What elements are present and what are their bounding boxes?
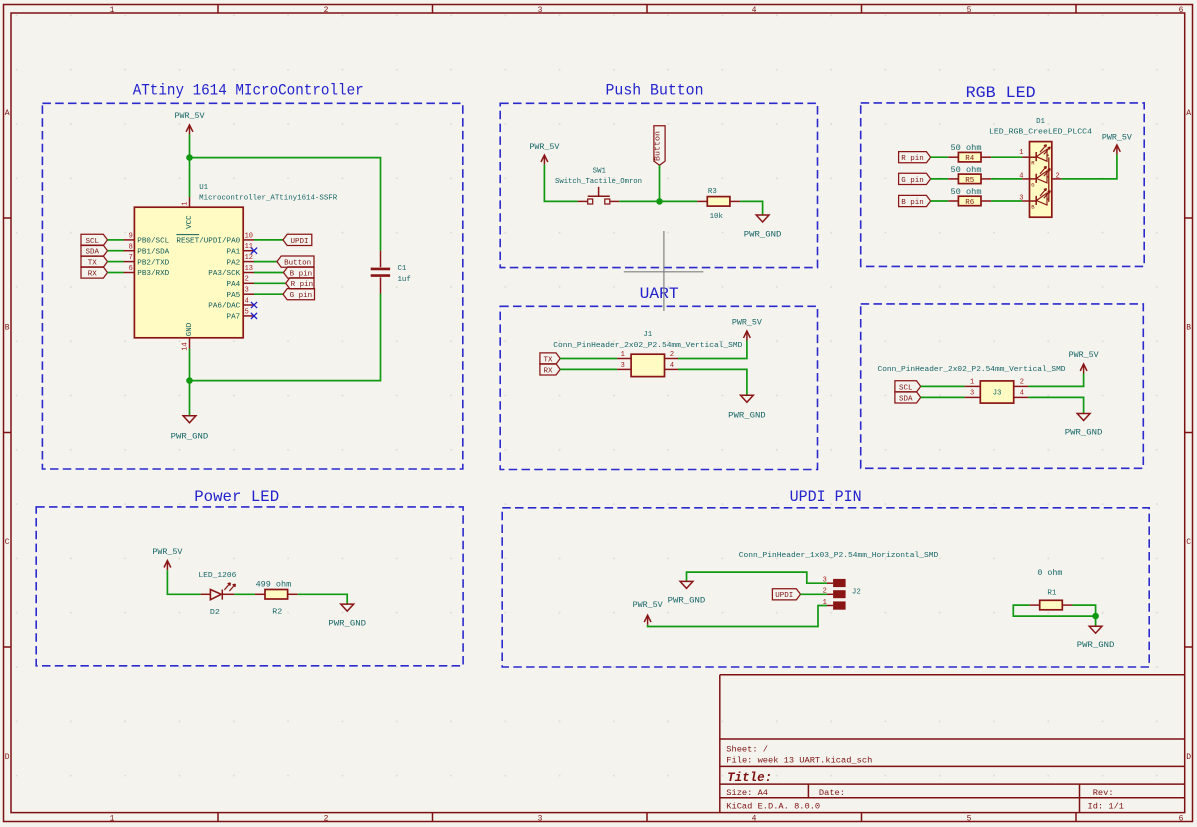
wire (991, 200, 1022, 202)
svg-text:KiCad E.D.A. 8.0.0: KiCad E.D.A. 8.0.0 (726, 801, 820, 811)
pin 2 (PA4) (243, 282, 254, 284)
wire (234, 593, 255, 595)
wire (1013, 605, 1095, 616)
svg-text:PWR_GND: PWR_GND (171, 432, 209, 442)
wire (931, 156, 949, 158)
wire (678, 341, 747, 359)
global label RX (81, 267, 108, 279)
svg-text:R2: R2 (272, 609, 282, 617)
svg-text:PWR_GND: PWR_GND (1077, 640, 1115, 650)
resistor R1 (1030, 600, 1073, 610)
border tick (4, 646, 12, 648)
wire (108, 239, 124, 241)
svg-text:Date:: Date: (819, 788, 845, 798)
wire (991, 156, 1022, 158)
svg-text:Button: Button (655, 131, 663, 161)
svg-text:3: 3 (245, 287, 249, 295)
svg-text:3: 3 (538, 814, 543, 823)
svg-text:2: 2 (324, 814, 329, 823)
svg-text:RX: RX (88, 270, 98, 278)
section box: power led (36, 507, 463, 666)
global label TX (540, 353, 560, 365)
svg-text:1: 1 (970, 378, 974, 386)
svg-text:G pin: G pin (901, 177, 924, 185)
svg-text:5: 5 (967, 6, 972, 15)
section box: updi pin (502, 508, 1149, 667)
wire (687, 572, 828, 583)
power PWR_5V symbol (1114, 145, 1121, 155)
svg-text:SW1: SW1 (593, 167, 607, 175)
svg-text:PB0/SCL: PB0/SCL (137, 238, 169, 246)
border tick (1185, 646, 1193, 648)
svg-text:3: 3 (621, 362, 625, 370)
svg-text:1: 1 (110, 814, 115, 823)
LED D2 (201, 583, 236, 600)
wire (1028, 397, 1083, 413)
svg-text:R6: R6 (965, 199, 975, 207)
wire (648, 606, 827, 627)
pin 12 (PA2) (243, 261, 254, 263)
border tick (217, 813, 219, 822)
ground PWR_GND symbol (1089, 626, 1102, 633)
svg-text:Microcontroller_ATtiny1614-SSF: Microcontroller_ATtiny1614-SSFR (199, 195, 338, 203)
LED element B (1030, 189, 1051, 206)
svg-text:11: 11 (245, 243, 253, 251)
junction (186, 377, 193, 384)
pin 6 (PB3/RXD) (124, 272, 135, 274)
svg-text:PA3/SCK: PA3/SCK (208, 270, 240, 278)
no-connect flag (251, 248, 257, 254)
pin 11 (PA1) (243, 250, 254, 252)
svg-text:PA7: PA7 (227, 314, 241, 322)
svg-text:1: 1 (110, 6, 115, 15)
svg-text:PA4: PA4 (227, 281, 241, 289)
svg-text:SDA: SDA (899, 395, 913, 403)
connector J3 body (980, 381, 1013, 403)
svg-text:PWR_5V: PWR_5V (152, 547, 183, 557)
svg-text:10k: 10k (710, 213, 724, 221)
svg-text:UPDI PIN: UPDI PIN (790, 488, 862, 506)
pin 3 (1022, 200, 1029, 202)
svg-text:UPDI: UPDI (775, 592, 793, 600)
wire (1062, 154, 1117, 179)
svg-text:J3: J3 (993, 390, 1002, 398)
svg-text:VCC: VCC (186, 215, 194, 229)
global label R pin (899, 152, 931, 164)
global label B pin (899, 195, 931, 207)
resistor R3 (697, 197, 740, 207)
wire (254, 239, 283, 241)
svg-text:PWR_GND: PWR_GND (668, 596, 706, 606)
svg-text:1: 1 (1019, 149, 1023, 157)
svg-text:Rev:: Rev: (1093, 788, 1114, 798)
svg-text:LED_1206: LED_1206 (198, 572, 236, 580)
svg-text:ATtiny 1614 MIcroController: ATtiny 1614 MIcroController (133, 81, 364, 99)
border tick (432, 5, 434, 14)
global label TX (81, 256, 108, 268)
svg-text:PWR_GND: PWR_GND (1065, 428, 1103, 438)
svg-text:UART: UART (640, 285, 679, 303)
svg-text:6: 6 (1179, 814, 1184, 823)
svg-text:LED_RGB_CreeLED_PLCC4: LED_RGB_CreeLED_PLCC4 (989, 129, 1093, 137)
svg-text:2: 2 (245, 276, 249, 284)
section box: uart (500, 306, 817, 469)
wire (740, 201, 763, 215)
svg-text:RGB LED: RGB LED (966, 84, 1036, 102)
title block frame (720, 675, 1185, 813)
wire (108, 261, 124, 263)
pin 2 (827, 593, 833, 595)
ground PWR_GND symbol (741, 395, 754, 402)
svg-text:Title:: Title: (727, 771, 772, 785)
svg-text:PWR_5V: PWR_5V (732, 317, 763, 327)
svg-text:RX: RX (543, 367, 553, 375)
border tick (1185, 432, 1193, 434)
global label SCL (81, 234, 108, 246)
wire (254, 293, 283, 295)
svg-text:4: 4 (245, 297, 249, 305)
svg-text:J1: J1 (643, 331, 652, 339)
global label G pin (899, 173, 931, 185)
power PWR_5V symbol (744, 331, 751, 341)
global label UPDI (283, 234, 312, 246)
switch SW1 (578, 187, 620, 204)
global label UPDI (772, 589, 800, 601)
svg-text:File: week 13 UART.kicad_sch: File: week 13 UART.kicad_sch (726, 756, 872, 766)
LED element G (1030, 166, 1051, 183)
power PWR_5V symbol (1080, 364, 1087, 374)
svg-text:R4: R4 (965, 155, 975, 163)
svg-text:C: C (5, 538, 10, 547)
pin 9 (PB0/SCL) (124, 239, 135, 241)
global label Button (vertical) (654, 126, 665, 166)
border tick (217, 5, 219, 14)
no-connect flag (251, 302, 257, 308)
svg-text:499 ohm: 499 ohm (256, 580, 292, 589)
svg-text:Conn_PinHeader_2x02_P2.54mm_Ve: Conn_PinHeader_2x02_P2.54mm_Vertical_SMD (553, 342, 743, 350)
svg-text:2: 2 (324, 6, 329, 15)
border tick (646, 5, 648, 14)
svg-text:PWR_5V: PWR_5V (175, 111, 206, 121)
wire (544, 165, 577, 202)
svg-text:12: 12 (245, 254, 253, 262)
svg-text:5: 5 (245, 308, 249, 316)
wire (254, 272, 284, 274)
svg-text:7: 7 (129, 254, 133, 262)
wire (1028, 374, 1083, 387)
svg-text:6: 6 (1179, 6, 1184, 15)
pin 3 (827, 582, 833, 584)
power PWR_5V symbol (164, 561, 171, 571)
svg-text:2: 2 (670, 351, 674, 359)
pin 1 (965, 385, 981, 387)
svg-text:PWR_GND: PWR_GND (728, 411, 766, 421)
connector J2 pad 3 (833, 579, 846, 587)
svg-text:PB2/TXD: PB2/TXD (137, 259, 169, 267)
svg-text:PA6/DAC: PA6/DAC (208, 303, 240, 311)
svg-text:PWR_5V: PWR_5V (1069, 350, 1100, 360)
svg-text:PB3/RXD: PB3/RXD (137, 270, 169, 278)
svg-text:C: C (1186, 538, 1191, 547)
pin 3 (PA5) (243, 293, 254, 295)
wire (991, 178, 1022, 180)
border tick (646, 813, 648, 822)
svg-text:J2: J2 (852, 589, 861, 597)
svg-text:R pin: R pin (901, 155, 924, 163)
section box: microcontroller (42, 103, 462, 469)
wire (921, 385, 965, 387)
svg-text:1uf: 1uf (398, 276, 411, 284)
wire (659, 165, 661, 201)
global label SCL (895, 381, 921, 393)
ground PWR_GND symbol (341, 604, 354, 611)
global label B pin (284, 267, 315, 279)
svg-text:SCL: SCL (899, 384, 913, 392)
pin 4 (665, 368, 679, 370)
svg-text:Power LED: Power LED (194, 488, 279, 506)
svg-text:R1: R1 (1047, 590, 1057, 598)
svg-text:U1: U1 (199, 184, 208, 192)
svg-text:R5: R5 (965, 177, 975, 185)
wire (801, 593, 828, 595)
svg-text:A: A (5, 109, 10, 118)
power PWR_5V symbol (186, 125, 193, 134)
wire (1072, 605, 1095, 626)
svg-text:2: 2 (1056, 173, 1060, 181)
svg-text:3: 3 (538, 6, 543, 15)
svg-text:14: 14 (182, 342, 190, 350)
svg-text:Push Button: Push Button (606, 81, 704, 99)
wire (189, 134, 191, 197)
svg-text:UPDI: UPDI (290, 238, 308, 246)
svg-text:GND: GND (186, 322, 194, 336)
pin 13 (PA3/SCK) (243, 272, 254, 274)
svg-text:PA5: PA5 (227, 292, 241, 300)
wire (560, 368, 617, 370)
svg-text:Conn_PinHeader_2x02_P2.54mm_Ve: Conn_PinHeader_2x02_P2.54mm_Vertical_SMD (878, 366, 1067, 374)
svg-text:13: 13 (245, 265, 253, 273)
connector J2 pad 1 (833, 601, 846, 609)
svg-text:C1: C1 (398, 265, 407, 273)
wire (678, 369, 747, 395)
svg-text:4: 4 (1020, 390, 1024, 398)
svg-text:D: D (5, 753, 10, 762)
pin 3 (965, 396, 981, 398)
svg-text:4: 4 (752, 814, 757, 823)
svg-text:B: B (1186, 324, 1191, 333)
svg-text:R3: R3 (708, 188, 717, 196)
wire (108, 250, 124, 252)
pin 2 (665, 358, 679, 360)
LED element R (1030, 145, 1051, 162)
svg-text:PWR_5V: PWR_5V (633, 600, 664, 610)
RESET overline (176, 234, 199, 236)
power PWR_5V symbol (644, 615, 651, 625)
pin 2 (1052, 178, 1062, 180)
svg-text:10: 10 (245, 232, 253, 240)
op-amp U1 body (microcontroller ATtiny1614) (134, 207, 243, 338)
border tick (4, 432, 12, 434)
pin 10 (RESET/UPDI/PA0) (243, 239, 254, 241)
resistor R2 (255, 590, 298, 600)
wire (931, 200, 949, 202)
svg-text:PA1: PA1 (227, 248, 241, 256)
connector J2 pad 2 (833, 590, 846, 598)
svg-text:1: 1 (621, 351, 625, 359)
svg-text:D1: D1 (1036, 118, 1045, 126)
svg-text:D2: D2 (210, 609, 220, 617)
wire (931, 178, 949, 180)
svg-text:4: 4 (670, 362, 674, 370)
svg-text:Size: A4: Size: A4 (726, 788, 768, 798)
pin 2 (1014, 385, 1029, 387)
svg-text:PWR_GND: PWR_GND (328, 619, 366, 629)
svg-text:A: A (1186, 109, 1191, 118)
pin 1 (1022, 156, 1029, 158)
svg-text:8: 8 (129, 243, 133, 251)
global label G pin (283, 289, 315, 301)
pin 1 (617, 358, 631, 360)
svg-text:PWR_5V: PWR_5V (1102, 132, 1133, 142)
resistor R5 (948, 174, 991, 184)
svg-text:2: 2 (1020, 378, 1024, 386)
pin 3 (617, 368, 631, 370)
junction (186, 154, 193, 161)
global label SDA (895, 392, 921, 404)
wire (108, 272, 124, 274)
svg-text:9: 9 (129, 233, 133, 241)
section box: i2c header (861, 304, 1144, 468)
pin 1 VCC (189, 197, 191, 207)
no-connect flag (251, 313, 257, 319)
pin 14 GND (189, 338, 191, 349)
svg-text:4: 4 (752, 6, 757, 15)
border tick (1185, 217, 1193, 219)
border tick (4, 217, 12, 219)
wire (921, 396, 965, 398)
svg-text:G: G (1031, 181, 1034, 188)
global label RX (540, 364, 560, 376)
pin 5 (PA7) (243, 315, 254, 317)
section box: push button (500, 103, 817, 267)
junction (1092, 613, 1099, 620)
global label R pin (286, 278, 314, 290)
ground PWR_GND symbol (1077, 414, 1090, 421)
svg-text:Conn_PinHeader_1x03_P2.54mm_Ho: Conn_PinHeader_1x03_P2.54mm_Horizontal_S… (739, 552, 939, 560)
wire (190, 294, 381, 381)
connector J1 body (631, 354, 664, 376)
svg-text:6: 6 (129, 265, 133, 273)
svg-text:Switch_Tactile_Omron: Switch_Tactile_Omron (555, 178, 642, 186)
svg-text:5: 5 (967, 814, 972, 823)
pin 7 (PB2/TXD) (124, 261, 135, 263)
wire (560, 358, 617, 360)
wire (254, 261, 277, 263)
wire (298, 594, 348, 604)
svg-text:B pin: B pin (901, 199, 924, 207)
svg-text:PWR_5V: PWR_5V (529, 142, 560, 152)
pin 4 (1014, 396, 1029, 398)
pin 1 (827, 605, 833, 607)
border tick (861, 813, 863, 822)
border tick (432, 813, 434, 822)
pin 8 (PB1/SDA) (124, 250, 135, 252)
cursor crosshair (624, 231, 704, 311)
svg-text:D: D (1186, 753, 1191, 762)
svg-text:RESET/UPDI/PA0: RESET/UPDI/PA0 (176, 238, 240, 246)
resistor R6 (948, 196, 991, 206)
svg-text:1: 1 (182, 202, 190, 206)
section box: rgb led (861, 103, 1144, 267)
pin 4 (PA6/DAC) (243, 304, 254, 306)
ground PWR_GND symbol (183, 416, 196, 423)
pin 4 (1022, 178, 1029, 180)
svg-text:G pin: G pin (290, 292, 313, 300)
ground PWR_GND symbol (680, 581, 693, 588)
border tick (1075, 5, 1077, 14)
svg-text:PWR_GND: PWR_GND (744, 229, 782, 239)
svg-text:PA2: PA2 (227, 259, 241, 267)
LED internal anode bus (1048, 157, 1050, 202)
global label SDA (81, 245, 108, 257)
wire (254, 282, 286, 284)
border tick (1075, 813, 1077, 822)
ground PWR_GND symbol (756, 215, 769, 222)
svg-text:3: 3 (970, 390, 974, 398)
global label Button (277, 256, 314, 268)
svg-text:0 ohm: 0 ohm (1037, 569, 1062, 578)
wire (189, 349, 191, 416)
border tick (861, 5, 863, 14)
svg-text:Id: 1/1: Id: 1/1 (1088, 801, 1125, 811)
LED D1 body (1030, 142, 1052, 218)
svg-text:B: B (5, 324, 10, 333)
power PWR_5V symbol (541, 155, 548, 165)
wire (167, 570, 200, 594)
svg-text:PB1/SDA: PB1/SDA (137, 248, 169, 256)
capacitor C1 (371, 251, 390, 294)
junction (656, 198, 663, 205)
wire (190, 158, 381, 251)
resistor R4 (948, 152, 991, 162)
svg-text:Sheet: /: Sheet: / (726, 744, 768, 754)
wire (619, 200, 697, 202)
